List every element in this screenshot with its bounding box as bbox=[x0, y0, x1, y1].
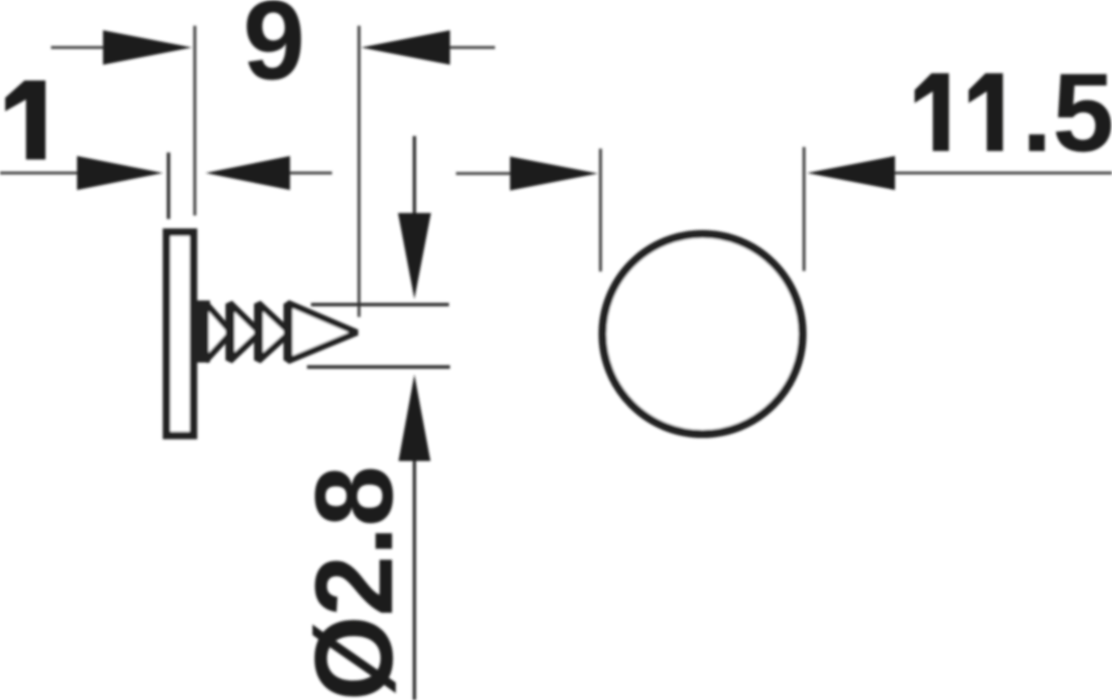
svg-text:Ø2.8: Ø2.8 bbox=[293, 467, 416, 700]
svg-text:9: 9 bbox=[243, 0, 305, 103]
svg-text:.5: .5 bbox=[1022, 51, 1112, 175]
